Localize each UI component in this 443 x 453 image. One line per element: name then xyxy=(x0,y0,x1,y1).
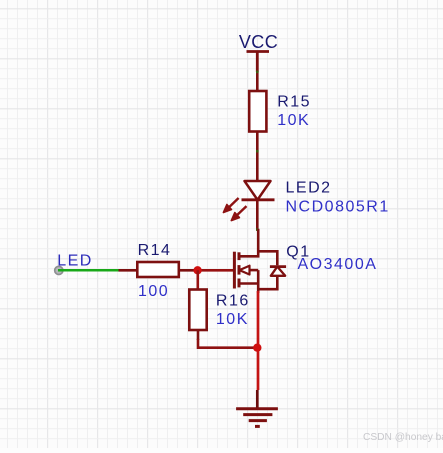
LED2 cathode bar xyxy=(242,198,275,201)
svg-text:100: 100 xyxy=(138,283,169,300)
ground pin stem xyxy=(256,390,259,409)
svg-text:LED2: LED2 xyxy=(286,180,332,197)
pin hotspot dot (VCC/R15) xyxy=(256,71,259,74)
Q1 body diode triangle xyxy=(271,267,285,276)
resistor R14 xyxy=(137,262,179,277)
resistor R15 xyxy=(249,91,266,132)
pin R14 left xyxy=(119,269,138,272)
Q1 body diode cathode bar xyxy=(270,265,286,268)
svg-text:R16: R16 xyxy=(216,292,250,309)
wire junction down to R16 xyxy=(197,270,200,289)
wire Q1 source to ground xyxy=(257,291,260,390)
pin R15 bottom / wire to LED2 xyxy=(256,132,259,182)
svg-text:R14: R14 xyxy=(138,242,172,259)
wire VCC to R15 xyxy=(256,72,259,91)
pin R16 bottom xyxy=(197,330,200,340)
wire LED net (green) xyxy=(58,269,119,272)
svg-text:LED: LED xyxy=(57,253,93,270)
Q1 source lead xyxy=(257,284,260,294)
Q1 source stub xyxy=(239,270,258,283)
svg-text:10K: 10K xyxy=(216,311,249,328)
svg-text:AO3400A: AO3400A xyxy=(298,256,378,273)
junction dot (gate net) xyxy=(193,266,201,274)
junction dot (source net) xyxy=(253,344,261,352)
svg-text:R15: R15 xyxy=(277,93,311,110)
port LED pin dot xyxy=(55,266,63,274)
wire R14 to Q1 gate xyxy=(198,269,233,272)
Q1 body diode connection top xyxy=(258,251,277,265)
svg-text:VCC: VCC xyxy=(239,32,278,52)
ground bar 2 xyxy=(243,413,272,416)
pin hotspot dot (R15/LED2) xyxy=(256,150,259,153)
Q1 channel segment middle xyxy=(238,265,241,275)
Q1 body arrow xyxy=(239,266,258,275)
svg-text:CSDN @honey ball: CSDN @honey ball xyxy=(363,432,443,443)
Q1 body diode anode lead xyxy=(258,276,277,289)
wire R16 to source net xyxy=(198,339,257,348)
svg-text:10K: 10K xyxy=(277,112,310,129)
svg-text:NCD0805R1: NCD0805R1 xyxy=(286,198,390,215)
LED2 triangle (anode) xyxy=(245,181,271,200)
transistor Q1 gate bar xyxy=(233,252,236,289)
LED2 emission arrow 2 xyxy=(231,206,246,221)
ground bar 1 xyxy=(236,407,278,410)
power port VCC bar symbol xyxy=(247,52,270,73)
Q1 drain stub xyxy=(239,229,258,256)
pin LED2 cathode / wire to Q1 drain xyxy=(256,200,259,230)
pin R14 right xyxy=(179,269,198,272)
LED2 emission arrow 1 xyxy=(223,198,238,213)
ground bar 3 xyxy=(249,419,267,422)
resistor R16 xyxy=(189,290,206,331)
Q1 channel segment bottom xyxy=(238,279,241,288)
Q1 channel segment top xyxy=(238,252,241,260)
pin hotspot dot (LED2/Q1) xyxy=(256,228,259,231)
ground bar 4 xyxy=(255,425,260,428)
